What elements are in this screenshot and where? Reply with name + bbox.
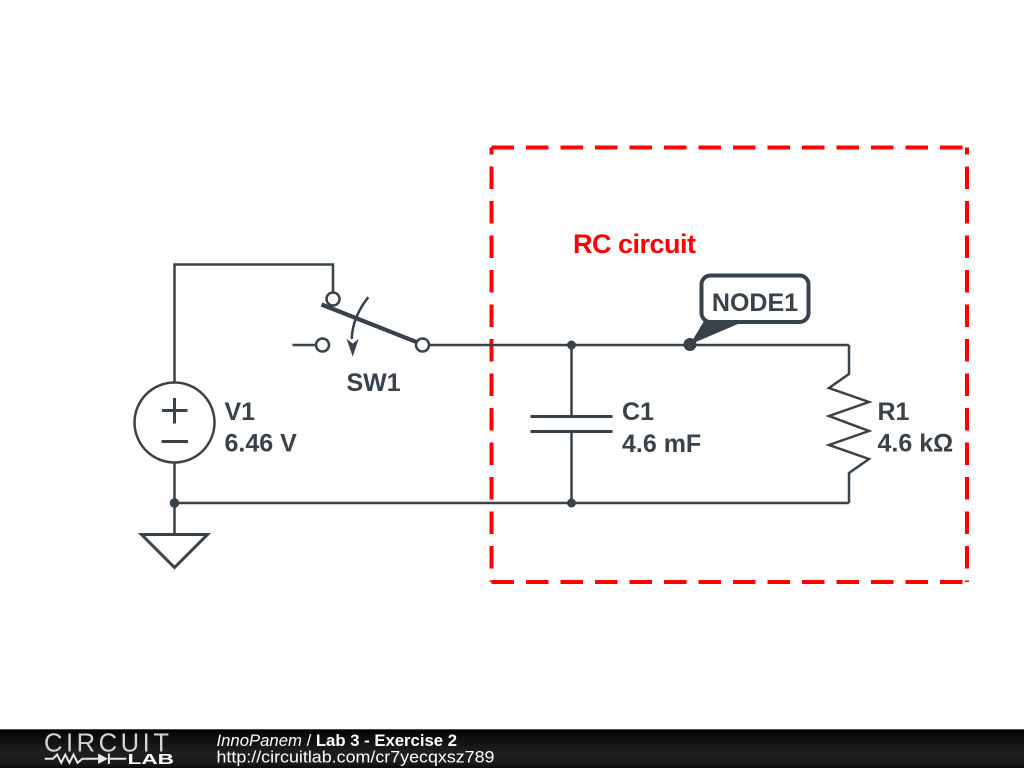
svg-text:NODE1: NODE1 [712, 289, 798, 317]
annotation box: red dashed RC circuit boundary [492, 148, 968, 583]
capacitor C1 [531, 417, 613, 432]
wire V1- to ground node [173, 463, 176, 504]
svg-text:SW1: SW1 [347, 369, 401, 397]
wire SW1 unused throw stub [293, 344, 317, 347]
resistor R1 [829, 345, 869, 503]
svg-text:R1: R1 [878, 398, 910, 426]
wire SW1 right throw to R1 top corner [429, 344, 849, 347]
switch SW1 [316, 293, 429, 357]
voltage source V1 [135, 383, 215, 463]
node NODE1 dot [684, 338, 697, 351]
ground [142, 503, 208, 568]
node NODE1 callout pointer [690, 321, 745, 345]
svg-text:V1: V1 [225, 398, 256, 426]
svg-text:RC circuit: RC circuit [573, 229, 696, 259]
junction dot at C1 bottom [567, 499, 576, 508]
logo resistor-diode squiggle [45, 754, 127, 765]
svg-text:6.46 V: 6.46 V [225, 430, 298, 458]
svg-text:4.6 kΩ: 4.6 kΩ [878, 430, 954, 458]
footer bar [0, 729, 1024, 768]
wire C1 bottom lead [570, 433, 573, 504]
node NODE1 callout box [702, 276, 809, 323]
junction dot at C1 top [567, 341, 576, 350]
svg-text:4.6 mF: 4.6 mF [622, 430, 701, 458]
svg-text:http://circuitlab.com/cr7yecqx: http://circuitlab.com/cr7yecqxsz789 [217, 748, 495, 767]
wire V1+ up and across to SW1 pole [175, 265, 334, 383]
svg-text:LAB: LAB [128, 752, 175, 768]
wire bottom return [175, 502, 850, 505]
junction dot at V1-/ground [170, 498, 180, 508]
logo diode triangle [98, 754, 108, 765]
wire C1 top lead [570, 345, 573, 416]
svg-text:C1: C1 [622, 398, 654, 426]
